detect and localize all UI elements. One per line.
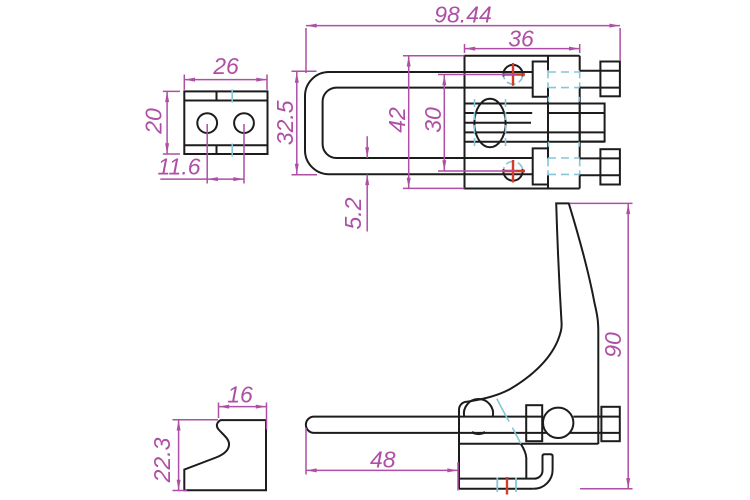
side view: nut left (526, 405, 542, 441)
plate top view outline (184, 91, 267, 154)
svg-text:11.6: 11.6 (157, 154, 200, 180)
U-bail inner contour (323, 88, 533, 158)
svg-text:36: 36 (508, 26, 534, 52)
block hidden edge segments cyan (579, 70, 581, 175)
side view: J hook (534, 454, 553, 489)
dimension 42 (403, 56, 465, 189)
screw bottom: hidden circle cyan (503, 161, 522, 180)
side view: base plate (459, 479, 536, 489)
screw top: hidden circle cyan (503, 65, 522, 84)
dimension 48 (306, 428, 458, 491)
washer square bottom (533, 148, 548, 184)
side view: adjuster ball circle (543, 408, 573, 438)
side view: bracket ear (459, 402, 467, 489)
side view: nut right (601, 407, 619, 441)
plate slot ticks (216, 91, 218, 154)
svg-text:90: 90 (600, 332, 626, 358)
screw top: red center mark (503, 63, 526, 86)
dimension 36 (465, 44, 580, 53)
screw bottom: red center mark (503, 160, 526, 183)
dimension 98.44 (306, 26, 620, 73)
svg-text:32.5: 32.5 (272, 100, 298, 145)
svg-text:98.44: 98.44 (434, 2, 492, 28)
svg-text:48: 48 (370, 447, 396, 473)
bolt shank lines bottom (580, 158, 601, 175)
svg-text:5.2: 5.2 (340, 197, 366, 229)
U-bail outer contour (305, 72, 533, 174)
screw bottom: arc (503, 169, 522, 181)
svg-text:20: 20 (141, 108, 167, 135)
dimension 22.3 (173, 420, 219, 491)
side view: bottom cyan ticks (497, 478, 516, 493)
side view: arm bottom edge (459, 443, 598, 445)
dimension 90 (570, 203, 633, 488)
svg-text:26: 26 (212, 53, 239, 79)
bolt head bottom right (600, 149, 620, 184)
plate hole right (234, 113, 254, 133)
dimension 11.6 (160, 124, 244, 184)
bolt shank lines top (580, 71, 601, 88)
screw top: arc (503, 65, 522, 77)
pivot boss ellipse (474, 99, 505, 147)
plate centerline marks cyan (231, 90, 233, 157)
side view: bottom red tick (506, 477, 508, 495)
dimension 30 (438, 75, 516, 172)
svg-text:42: 42 (384, 107, 410, 133)
dimension 5.2 leader (366, 136, 368, 231)
spindle nut right (580, 104, 605, 142)
side view: hidden edge cyan (497, 399, 521, 444)
svg-text:30: 30 (420, 107, 446, 133)
svg-text:16: 16 (227, 382, 253, 408)
plate inner horizontal lines (184, 101, 267, 146)
dimension 32.5 (292, 71, 318, 175)
side view: lever lower tip (521, 444, 527, 479)
dimension 26 (184, 75, 267, 90)
side view: lever handle outline (467, 203, 598, 444)
svg-text:22.3: 22.3 (149, 437, 175, 483)
block inner vertical (547, 56, 549, 189)
dimension 16 (219, 403, 267, 430)
spindle band lines (465, 104, 605, 142)
washer square top (533, 62, 548, 97)
hidden lines cyan vertical (475, 99, 506, 147)
bolt head top right (600, 62, 620, 97)
side view: slide rod (306, 417, 620, 433)
latch catch plate small part (184, 420, 266, 490)
side view: pivot pin circle (464, 399, 493, 417)
hidden lines cyan horizontal (548, 72, 580, 174)
dimension 20 (163, 91, 180, 154)
clamp base block outline (465, 56, 580, 189)
plate hole left (197, 113, 217, 133)
